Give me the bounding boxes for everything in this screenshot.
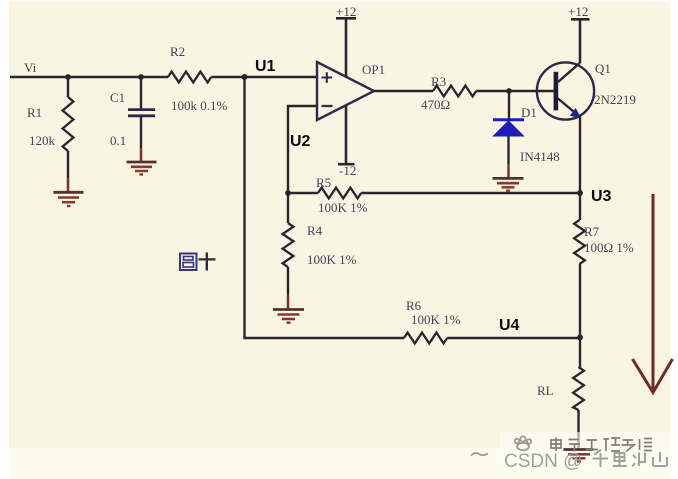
svg-text:R5: R5 xyxy=(316,175,331,190)
wire: op-amp output to transistor base xyxy=(374,90,537,92)
diode D1 xyxy=(493,105,560,164)
svg-text:C1: C1 xyxy=(110,90,125,105)
wire: U3 to R7 xyxy=(579,193,581,338)
annotation arrow (dark red, pointing down) xyxy=(633,194,673,393)
svg-text:+12: +12 xyxy=(568,4,588,19)
watermark text CSDN @千里浩山 xyxy=(504,450,667,473)
svg-text:120k: 120k xyxy=(29,133,56,148)
resistor R6 xyxy=(404,298,461,343)
junction dot D1 tap xyxy=(506,88,512,94)
wire: feedback to inverting input xyxy=(288,106,317,193)
svg-text:Q1: Q1 xyxy=(595,61,611,76)
svg-text:0.1: 0.1 xyxy=(110,133,126,148)
svg-text:OP1: OP1 xyxy=(362,62,385,77)
wire: down to D1 xyxy=(508,91,510,119)
op-amp -12 supply xyxy=(338,106,356,179)
svg-text:CSDN @: CSDN @ xyxy=(504,451,582,472)
resistor R3 xyxy=(421,74,476,112)
resistor R1 xyxy=(27,97,73,151)
svg-text:U3: U3 xyxy=(591,188,612,205)
svg-text:RL: RL xyxy=(537,383,554,398)
junction dot R1 tap xyxy=(65,74,71,80)
Q1 +12 supply xyxy=(568,4,590,19)
watermark text 电子工程专辑 (drawn strokes) xyxy=(551,438,652,452)
svg-text:100Ω 1%: 100Ω 1% xyxy=(584,240,634,255)
ground (R1) xyxy=(54,192,84,206)
svg-text:D1: D1 xyxy=(521,105,537,120)
ground (RL) xyxy=(564,450,594,462)
watermark background glow xyxy=(500,432,678,469)
watermark squiggle ~ xyxy=(471,453,488,455)
svg-text:U2: U2 xyxy=(290,133,311,150)
svg-text:IN4148: IN4148 xyxy=(520,149,560,164)
resistor RL xyxy=(537,367,584,410)
resistor R4 xyxy=(283,223,357,267)
label Vi xyxy=(24,60,37,75)
svg-text:100k 0.1%: 100k 0.1% xyxy=(171,98,228,113)
wire: U4 down to RL xyxy=(579,338,581,450)
node U4 xyxy=(499,317,583,341)
svg-text:R6: R6 xyxy=(406,298,422,313)
svg-text:R7: R7 xyxy=(584,224,600,239)
capacitor C1 xyxy=(110,90,155,148)
svg-text:R4: R4 xyxy=(307,223,323,238)
svg-text:U4: U4 xyxy=(499,317,520,334)
ground (C1) xyxy=(127,162,157,175)
svg-text:470Ω: 470Ω xyxy=(421,97,450,112)
wire: C1 branch vertical xyxy=(140,77,142,161)
svg-text:100K 1%: 100K 1% xyxy=(318,200,368,215)
resistor R2 xyxy=(168,44,228,113)
svg-text:U1: U1 xyxy=(255,58,276,75)
resistor R5 xyxy=(316,175,368,215)
wire: emitter down to U3 xyxy=(579,117,581,194)
wire: R5 line from U2 junction to U3 xyxy=(288,192,580,194)
node U1 xyxy=(242,58,276,80)
transistor Q1 xyxy=(537,61,636,120)
svg-text:R1: R1 xyxy=(27,105,42,120)
op-amp +12 supply xyxy=(336,4,356,77)
wire: R4 branch xyxy=(287,193,289,309)
resistor R7 xyxy=(574,220,634,264)
figure caption 圖十 (drawn) xyxy=(180,253,216,271)
node U3 xyxy=(577,188,612,205)
svg-text:R3: R3 xyxy=(431,74,446,89)
svg-text:100K 1%: 100K 1% xyxy=(411,312,461,327)
wire: R1 branch vertical xyxy=(67,77,69,192)
wire: D1 to ground xyxy=(507,136,509,178)
op-amp U1 (OP1) xyxy=(317,62,385,120)
node U2 xyxy=(285,133,310,196)
svg-text:100K 1%: 100K 1% xyxy=(307,252,357,267)
wire: U1 down and across to R6/U4 xyxy=(245,77,581,338)
svg-text:R2: R2 xyxy=(170,44,185,59)
svg-text:2N2219: 2N2219 xyxy=(594,92,636,107)
watermark icon xyxy=(515,436,531,450)
ground (R4) xyxy=(273,310,304,323)
ground (D1) xyxy=(493,178,524,190)
junction dot C1 tap xyxy=(138,74,144,80)
svg-text:+12: +12 xyxy=(336,4,356,19)
wire: main input horizontal Vi to op-amp xyxy=(10,76,317,78)
wire: collector to +12 xyxy=(579,20,582,63)
svg-text:Vi: Vi xyxy=(24,60,37,75)
svg-text:-12: -12 xyxy=(339,163,356,178)
